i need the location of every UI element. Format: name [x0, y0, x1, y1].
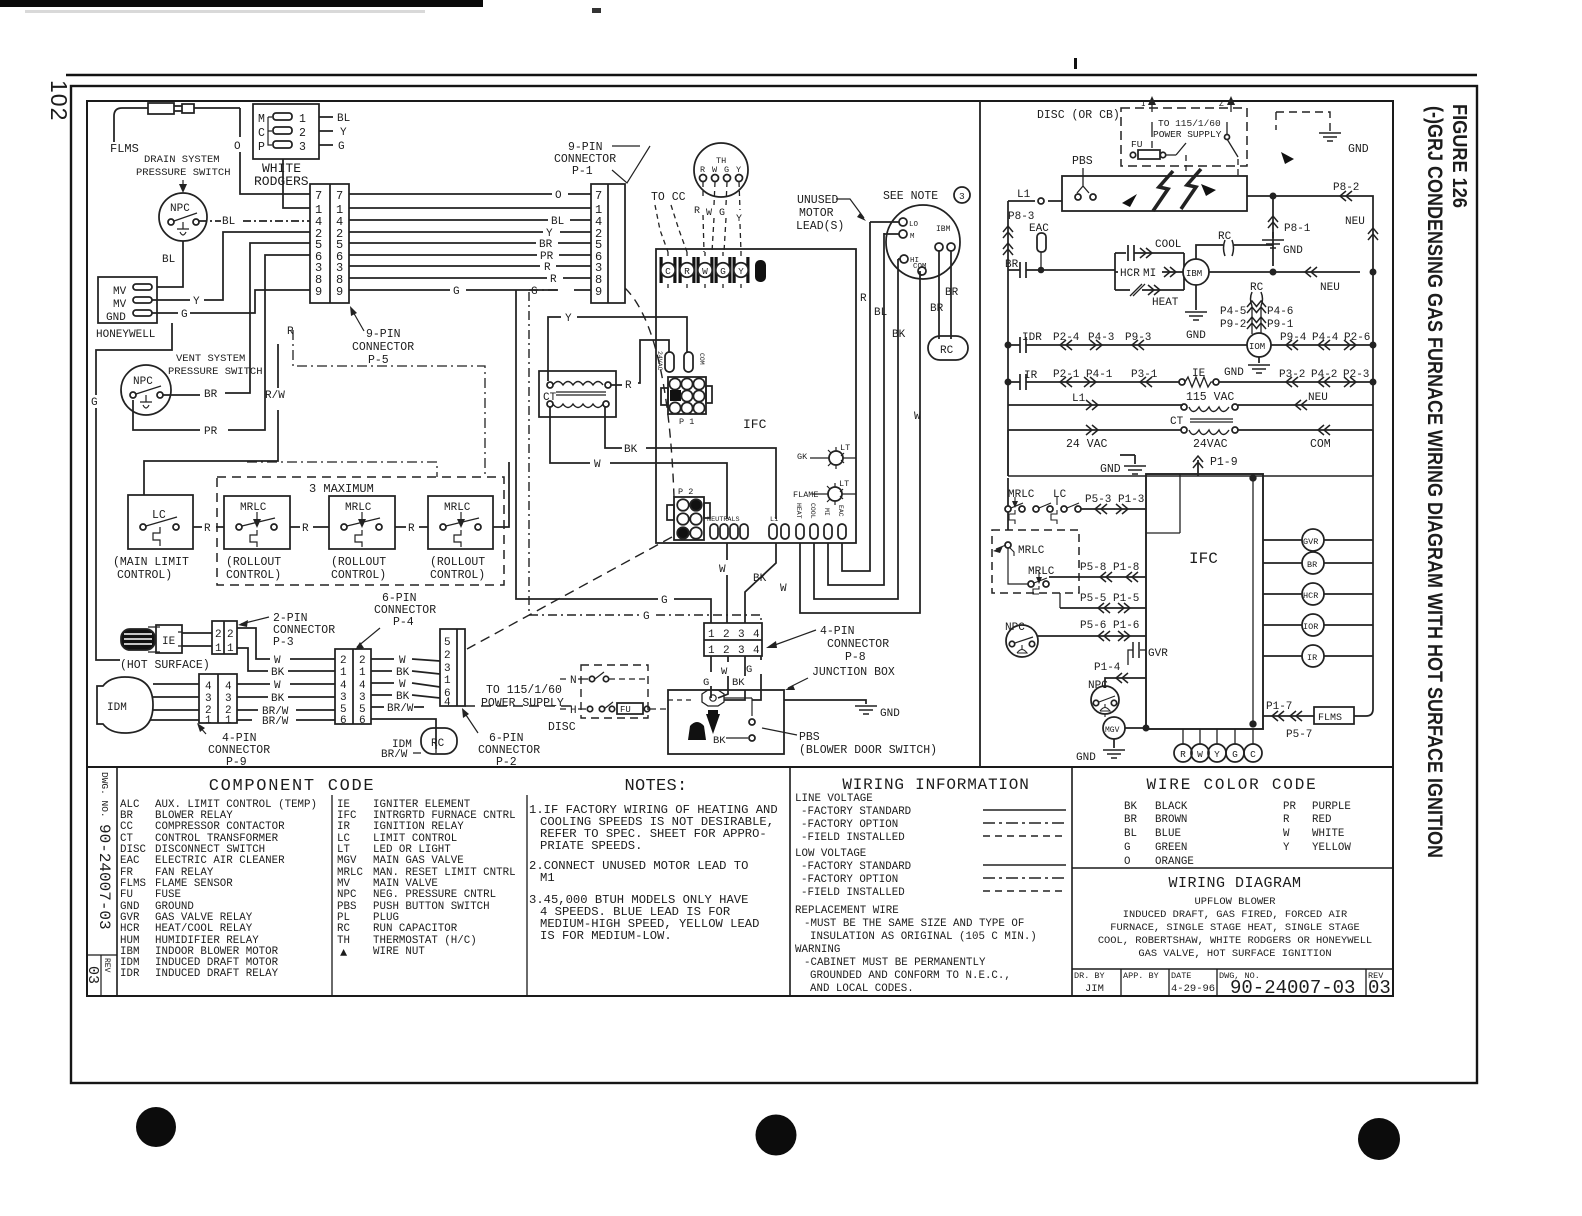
9-pin connector P-1: [591, 184, 625, 303]
svg-text:G: G: [1232, 749, 1238, 760]
GND under IBM: [1195, 285, 1197, 310]
svg-text:BR: BR: [1307, 560, 1317, 570]
arrows up I Z: [1151, 100, 1153, 112]
vent NPC pressure switch: [121, 365, 171, 415]
svg-text:GK: GK: [797, 452, 808, 462]
HCR relay network: [1115, 253, 1184, 290]
scanner black bar top: [0, 0, 483, 7]
svg-text:W: W: [399, 655, 406, 667]
svg-text:P5-3 P1-3: P5-3 P1-3: [1085, 494, 1144, 506]
top rule: [66, 74, 1477, 77]
svg-text:RODGERS: RODGERS: [254, 174, 309, 189]
table top rule: [87, 766, 1393, 768]
svg-text:2: 2: [227, 629, 234, 641]
svg-text:4: 4: [753, 629, 760, 641]
MGV circle: [1103, 717, 1125, 739]
svg-text:IS FOR MEDIUM-LOW.: IS FOR MEDIUM-LOW.: [540, 929, 672, 943]
svg-text:BR: BR: [204, 389, 218, 401]
svg-text:WHITE: WHITE: [1312, 828, 1344, 840]
svg-text:MI: MI: [1143, 268, 1156, 280]
wires P-4 to P-2: [371, 659, 440, 661]
svg-text:PRESSURE SWITCH: PRESSURE SWITCH: [136, 167, 231, 179]
svg-text:BLACK: BLACK: [1155, 801, 1188, 813]
svg-text:EAC: EAC: [120, 855, 140, 867]
svg-text:FLAME: FLAME: [793, 490, 819, 500]
svg-text:W: W: [721, 666, 728, 678]
svg-text:GAS VALVE, HOT SURFACE IGNITIO: GAS VALVE, HOT SURFACE IGNITION: [1138, 948, 1331, 960]
svg-text:P-2: P-2: [496, 756, 517, 769]
svg-text:IE: IE: [162, 636, 176, 648]
svg-text:GND: GND: [1100, 463, 1121, 476]
svg-text:WIRING DIAGRAM: WIRING DIAGRAM: [1168, 875, 1301, 892]
svg-text:-FIELD INSTALLED: -FIELD INSTALLED: [801, 887, 905, 899]
svg-text:RC: RC: [431, 738, 445, 750]
svg-text:G: G: [338, 141, 345, 153]
R wire CT to 24VAC: [611, 340, 669, 385]
svg-text:FU: FU: [1131, 139, 1143, 150]
svg-text:NPC: NPC: [133, 376, 153, 388]
svg-text:P4-6: P4-6: [1267, 306, 1293, 318]
hole punch dot left: [136, 1107, 176, 1147]
svg-text:P-1: P-1: [572, 165, 593, 178]
svg-text:(MAIN LIMIT: (MAIN LIMIT: [113, 556, 189, 569]
svg-text:M: M: [910, 233, 915, 241]
svg-text:G: G: [661, 595, 668, 607]
wire G honeywell to P-5 pin 9: [152, 290, 310, 313]
3 maximum dashed box: [217, 477, 504, 585]
svg-text:PRESSURE SWITCH: PRESSURE SWITCH: [168, 366, 263, 378]
svg-text:VENT SYSTEM: VENT SYSTEM: [176, 353, 245, 365]
svg-text:7: 7: [595, 189, 602, 203]
svg-text:LT: LT: [840, 443, 850, 453]
svg-text:NEU: NEU: [1320, 282, 1340, 294]
wire R/W down to LC: [144, 344, 278, 495]
svg-text:DISC: DISC: [548, 721, 576, 734]
svg-text:IOM: IOM: [1249, 342, 1265, 352]
24VAC COM terminals: [665, 352, 674, 372]
svg-text:R: R: [700, 165, 705, 175]
svg-text:I: I: [1141, 100, 1146, 109]
svg-text:GND: GND: [880, 708, 900, 720]
tick mark above frame: [1074, 58, 1077, 69]
svg-text:PRIATE SPEEDS.: PRIATE SPEEDS.: [540, 839, 642, 853]
Y wire into CT: [548, 317, 687, 381]
svg-text:L1: L1: [1072, 393, 1086, 405]
G wires from left into P-8: [516, 290, 711, 623]
GVR BR HCR IOR IR ladder: [1263, 539, 1373, 541]
svg-text:BR/W: BR/W: [387, 703, 414, 715]
svg-text:P4-4: P4-4: [1312, 332, 1339, 344]
svg-text:9-PIN: 9-PIN: [366, 328, 401, 341]
svg-text:LC: LC: [1053, 489, 1067, 501]
faint scan smear under top bar: [25, 10, 425, 13]
svg-text:P9-2: P9-2: [1220, 319, 1246, 331]
svg-text:P1-4: P1-4: [1094, 662, 1121, 674]
svg-text:BK: BK: [396, 667, 410, 679]
svg-text:MRLC: MRLC: [444, 502, 471, 514]
IBM blower motor circle: [886, 205, 960, 279]
svg-text:P9-3: P9-3: [1125, 332, 1151, 344]
svg-text:90-24007-03: 90-24007-03: [95, 824, 113, 930]
GND under MGV: [1113, 739, 1115, 748]
svg-text:IFC: IFC: [743, 417, 767, 432]
svg-text:LC: LC: [152, 509, 166, 522]
svg-text:LEAD(S): LEAD(S): [796, 220, 844, 233]
svg-text:W: W: [712, 165, 718, 175]
svg-text:3: 3: [359, 692, 366, 704]
dashes from disc box down to switch: [1186, 155, 1238, 178]
svg-text:P1-7: P1-7: [1266, 701, 1292, 713]
svg-text:SEE NOTE: SEE NOTE: [883, 190, 938, 203]
svg-text:9: 9: [336, 285, 343, 299]
IOM circle: [1247, 333, 1271, 357]
svg-text:MRLC: MRLC: [1008, 489, 1035, 501]
svg-text:FLMS: FLMS: [110, 142, 139, 156]
wire O from flame sensor to P-5 pin 7: [240, 108, 310, 194]
svg-text:CONNECTOR: CONNECTOR: [352, 341, 414, 354]
svg-text:RED: RED: [1312, 814, 1331, 826]
svg-text:DWG. NO.: DWG. NO.: [99, 772, 110, 818]
svg-text:REV: REV: [102, 958, 111, 973]
dash-dot line segments: [293, 330, 485, 477]
divider between halves: [979, 101, 981, 767]
svg-text:EAC: EAC: [837, 505, 844, 517]
dashed arc P-1 to P2 plug: [625, 288, 674, 497]
svg-text:INSULATION AS ORIGINAL (105 C: INSULATION AS ORIGINAL (105 C MIN.): [810, 931, 1037, 943]
svg-text:COMPONENT CODE: COMPONENT CODE: [209, 777, 376, 796]
svg-text:7: 7: [315, 189, 322, 203]
svg-text:MRLC: MRLC: [345, 502, 372, 514]
svg-text:4: 4: [753, 645, 760, 657]
svg-text:NPC: NPC: [337, 889, 357, 901]
stray mark top: [592, 8, 601, 13]
svg-text:BLUE: BLUE: [1155, 828, 1181, 840]
svg-text:2: 2: [299, 127, 306, 140]
svg-text:COOL: COOL: [809, 503, 816, 519]
wires IDM to P-9: [150, 684, 199, 720]
svg-text:IDR: IDR: [1022, 332, 1042, 344]
4-pin connector P-9: [199, 674, 237, 723]
svg-text:Y: Y: [736, 214, 742, 225]
FU fuse in disc: [609, 706, 614, 711]
GVR coil: [1140, 649, 1146, 651]
svg-text:P2-1: P2-1: [1053, 369, 1080, 381]
svg-text:9: 9: [595, 285, 602, 299]
6-pin connector P-4: [335, 649, 371, 724]
svg-text:L1: L1: [1017, 189, 1031, 201]
svg-text:C: C: [258, 127, 265, 140]
svg-text:MRLC: MRLC: [1018, 545, 1045, 557]
svg-text:INDUCED DRAFT RELAY: INDUCED DRAFT RELAY: [155, 968, 279, 980]
svg-text:Z: Z: [1219, 100, 1224, 109]
svg-text:COOL: COOL: [1155, 239, 1181, 251]
svg-text:P4-1: P4-1: [1086, 369, 1113, 381]
svg-text:LO: LO: [909, 221, 919, 229]
svg-text:N: N: [570, 675, 577, 687]
svg-text:G: G: [746, 664, 752, 676]
svg-text:MGV: MGV: [337, 855, 357, 867]
svg-text:LOW VOLTAGE: LOW VOLTAGE: [795, 848, 866, 860]
svg-text:NEU: NEU: [1345, 216, 1365, 228]
svg-text:BK: BK: [732, 677, 745, 689]
svg-text:LINE VOLTAGE: LINE VOLTAGE: [795, 793, 873, 805]
svg-text:NPC: NPC: [170, 203, 190, 215]
svg-text:W: W: [1283, 828, 1290, 840]
sidebar verticals: [116, 767, 118, 996]
CRWGY terminal strip: [660, 252, 767, 288]
svg-text:(BLOWER DOOR SWITCH): (BLOWER DOOR SWITCH): [799, 744, 937, 757]
LC main limit control box: [128, 495, 193, 549]
svg-text:1: 1: [225, 715, 232, 727]
svg-text:R: R: [550, 274, 557, 286]
svg-text:P2-6: P2-6: [1344, 332, 1370, 344]
svg-text:(ROLLOUT: (ROLLOUT: [331, 556, 386, 569]
svg-text:2: 2: [215, 629, 222, 641]
svg-text:1: 1: [299, 113, 306, 126]
svg-text:24VAC: 24VAC: [1193, 438, 1228, 451]
svg-text:P2-4: P2-4: [1053, 332, 1080, 344]
rollout MRLC box 2: [329, 496, 395, 582]
svg-text:R: R: [544, 262, 551, 274]
svg-text:L1: L1: [770, 516, 778, 524]
svg-text:BK: BK: [753, 573, 767, 585]
svg-text:1: 1: [708, 645, 715, 657]
svg-text:CC: CC: [120, 821, 133, 833]
svg-text:P3-2: P3-2: [1279, 369, 1305, 381]
svg-text:R: R: [860, 293, 867, 305]
svg-text:2: 2: [340, 655, 347, 667]
TH thermostat circle: [694, 143, 748, 197]
svg-text:Y: Y: [1214, 749, 1220, 760]
svg-text:PBS: PBS: [799, 731, 820, 744]
svg-text:PBS: PBS: [1072, 155, 1093, 168]
svg-text:4: 4: [205, 681, 212, 693]
svg-text:1: 1: [708, 629, 715, 641]
CT control transformer: [539, 371, 616, 417]
svg-text:COM: COM: [1310, 438, 1331, 451]
wire WR box to P-5 pin 1: [283, 159, 310, 208]
wire Y honeywell to P-5 pin 2: [152, 232, 310, 300]
svg-text:2: 2: [723, 629, 730, 641]
IFC box right: [1146, 474, 1263, 729]
svg-text:-FACTORY OPTION: -FACTORY OPTION: [801, 874, 898, 886]
honeywell gas valve box: [98, 277, 157, 323]
svg-text:W: W: [399, 679, 406, 691]
svg-text:G: G: [703, 677, 709, 689]
svg-text:REPLACEMENT WIRE: REPLACEMENT WIRE: [795, 905, 899, 917]
drain NPC pressure switch: [159, 193, 207, 241]
svg-text:FUSE: FUSE: [155, 889, 181, 901]
ground from junction box: [784, 700, 866, 704]
9-pin connector P-5: [310, 184, 349, 303]
svg-text:1: 1: [340, 667, 347, 679]
wires P-8 down into junction box: [710, 656, 712, 698]
outer frame: [71, 86, 1477, 1083]
svg-text:3: 3: [959, 191, 965, 202]
svg-text:IFC: IFC: [1189, 550, 1218, 568]
svg-text:BK: BK: [271, 693, 285, 705]
svg-text:W: W: [780, 583, 787, 595]
svg-text:POWER SUPPLY: POWER SUPPLY: [481, 697, 564, 710]
induced draft motor IDM: [97, 677, 153, 733]
svg-text:COM: COM: [913, 263, 927, 271]
IFC large box: [656, 249, 856, 543]
svg-text:CONNECTOR: CONNECTOR: [827, 638, 889, 651]
svg-text:GND: GND: [106, 312, 126, 324]
W wire CT to neutrals: [550, 407, 727, 519]
svg-text:P9-1: P9-1: [1267, 319, 1294, 331]
svg-text:G: G: [724, 165, 729, 175]
flame sensor FLMS: [114, 108, 148, 142]
svg-text:PR: PR: [204, 426, 218, 438]
wire nut black: [706, 714, 720, 734]
svg-text:W: W: [1197, 749, 1203, 760]
svg-text:FURNACE, SINGLE STAGE HEAT, SI: FURNACE, SINGLE STAGE HEAT, SINGLE STAGE: [1110, 922, 1359, 934]
svg-text:M: M: [258, 113, 265, 126]
svg-text:BL: BL: [222, 216, 235, 228]
svg-text:ELECTRIC AIR CLEANER: ELECTRIC AIR CLEANER: [155, 855, 285, 867]
dashed leader from P-2 to disc: [465, 537, 672, 706]
svg-text:HCR: HCR: [1303, 591, 1318, 601]
svg-text:C: C: [665, 266, 671, 277]
svg-text:FU: FU: [620, 705, 631, 715]
svg-text:NOTES:: NOTES:: [624, 777, 687, 796]
svg-text:4-PIN: 4-PIN: [820, 625, 855, 638]
svg-text:P 1: P 1: [679, 417, 694, 427]
svg-text:5: 5: [444, 637, 451, 649]
svg-text:W: W: [719, 564, 726, 576]
svg-text:W: W: [706, 208, 712, 219]
svg-text:UPFLOW BLOWER: UPFLOW BLOWER: [1194, 896, 1275, 908]
svg-text:BL: BL: [1124, 828, 1137, 840]
R W Y G C terminals: [1183, 729, 1253, 744]
svg-text:115 VAC: 115 VAC: [1186, 391, 1234, 404]
svg-text:FLMS: FLMS: [1318, 713, 1342, 724]
6-pin connector P-2: [440, 629, 465, 706]
svg-text:Y: Y: [1283, 842, 1290, 854]
svg-text:GND: GND: [1076, 752, 1096, 764]
svg-text:R: R: [287, 326, 294, 338]
svg-text:HEAT/COOL RELAY: HEAT/COOL RELAY: [155, 923, 253, 935]
svg-text:4: 4: [340, 680, 347, 692]
R wires between limit boxes: [193, 526, 224, 528]
svg-text:GVR: GVR: [1303, 537, 1318, 547]
svg-text:Y: Y: [736, 165, 741, 175]
svg-text:3 MAXIMUM: 3 MAXIMUM: [309, 482, 374, 496]
svg-text:P-5: P-5: [368, 354, 389, 367]
wire PR vent NPC to P-5 pin 6: [133, 255, 310, 430]
DISC dashed box: [1121, 108, 1247, 166]
P1 plug: [668, 377, 706, 414]
svg-text:MI: MI: [823, 508, 830, 516]
svg-text:DRAIN SYSTEM: DRAIN SYSTEM: [144, 154, 220, 166]
svg-text:(HOT SURFACE): (HOT SURFACE): [120, 659, 210, 672]
svg-text:-FACTORY STANDARD: -FACTORY STANDARD: [801, 806, 911, 818]
wires P-3 to P-4 rows 2,1: [237, 628, 335, 659]
svg-text:CONTROL): CONTROL): [226, 569, 281, 582]
svg-text:6: 6: [340, 715, 347, 727]
svg-text:Y: Y: [340, 127, 347, 139]
svg-text:WARNING: WARNING: [795, 944, 840, 956]
svg-text:MV: MV: [113, 299, 127, 311]
svg-text:3: 3: [299, 141, 306, 154]
svg-text:IDR: IDR: [120, 968, 140, 980]
svg-text:6: 6: [359, 715, 366, 727]
svg-text:P4-5: P4-5: [1220, 306, 1246, 318]
RC run capacitor blower: [928, 336, 968, 360]
svg-text:BR: BR: [930, 303, 944, 315]
svg-text:P 2: P 2: [678, 487, 693, 497]
svg-text:Y: Y: [565, 313, 572, 325]
svg-text:BK: BK: [892, 329, 906, 341]
right switch blade in disc box: [1227, 122, 1238, 157]
svg-text:P-8: P-8: [845, 651, 866, 664]
svg-text:PR: PR: [1283, 801, 1296, 813]
wire color code panel and title block: [1072, 776, 1393, 999]
BR BR wires to RC: [939, 251, 951, 339]
wire G honeywell down left side: [96, 323, 172, 660]
svg-text:P-9: P-9: [226, 756, 247, 769]
svg-text:FU: FU: [120, 889, 133, 901]
main switch box: [1062, 176, 1247, 211]
svg-text:IR: IR: [1307, 653, 1317, 663]
svg-text:GND: GND: [1186, 330, 1206, 342]
svg-text:3: 3: [738, 645, 745, 657]
wires IE to P-3: [182, 633, 212, 646]
svg-text:G: G: [91, 397, 98, 409]
svg-text:BR/W: BR/W: [262, 716, 289, 728]
svg-text:G: G: [531, 286, 538, 298]
svg-text:WIRE COLOR CODE: WIRE COLOR CODE: [1146, 776, 1317, 794]
svg-text:FIGURE 126: FIGURE 126: [1448, 104, 1470, 208]
svg-text:IR: IR: [337, 821, 350, 833]
svg-text:BROWN: BROWN: [1155, 814, 1187, 826]
dashed MRLC box: [992, 530, 1079, 593]
line style samples: [983, 809, 1066, 811]
svg-text:DATE: DATE: [1171, 971, 1191, 981]
svg-text:P5-8 P1-8: P5-8 P1-8: [1080, 562, 1139, 574]
svg-text:BL: BL: [874, 307, 887, 319]
wire BL drain NPC to P-5 pin 4: [199, 220, 310, 222]
hole punch dot right: [1358, 1118, 1400, 1160]
svg-text:9: 9: [315, 285, 322, 299]
svg-text:JUNCTION BOX: JUNCTION BOX: [812, 666, 895, 679]
svg-text:4: 4: [225, 681, 232, 693]
svg-text:DISC (OR CB): DISC (OR CB): [1037, 109, 1120, 122]
4-pin connector P-8: [704, 623, 762, 656]
svg-text:P5-6 P1-6: P5-6 P1-6: [1080, 620, 1139, 632]
svg-text:IBM: IBM: [936, 225, 951, 234]
svg-text:▲: ▲: [340, 946, 348, 960]
svg-text:P-3: P-3: [273, 636, 294, 649]
svg-text:GREEN: GREEN: [1155, 842, 1187, 854]
svg-text:3: 3: [340, 692, 347, 704]
GND under IOM: [1258, 357, 1260, 363]
svg-text:2: 2: [723, 645, 730, 657]
svg-text:G: G: [643, 611, 650, 623]
svg-text:BR: BR: [1124, 814, 1137, 826]
svg-text:W: W: [274, 680, 281, 692]
GND top right: [1276, 112, 1330, 131]
MRLC inside dashed box: [1005, 542, 1011, 548]
svg-text:AND LOCAL CODES.: AND LOCAL CODES.: [810, 983, 914, 995]
lightning bolts: [1153, 171, 1173, 211]
svg-text:NEG. PRESSURE CNTRL: NEG. PRESSURE CNTRL: [373, 889, 496, 901]
motor lead wires from right: [842, 222, 870, 571]
svg-text:HONEYWELL: HONEYWELL: [96, 329, 155, 341]
svg-text:(-)GRJ CONDENSING GAS FURNACE: (-)GRJ CONDENSING GAS FURNACE WIRING DIA…: [1423, 106, 1446, 858]
svg-text:R: R: [694, 206, 700, 217]
